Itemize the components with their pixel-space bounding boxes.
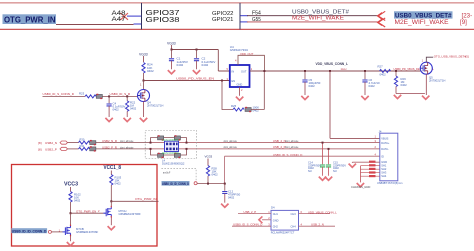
attribute text row1 mid [224, 140, 238, 143]
pin number A47 [112, 17, 127, 23]
junction EN/R25 [221, 80, 223, 82]
alt resistor bottom B [174, 153, 180, 158]
capacitor C4 [107, 96, 126, 117]
wire row1 to connector [272, 142, 380, 144]
wire through choke row1 [151, 142, 273, 144]
pin number D4-4 [301, 222, 303, 226]
svg-text:2N7002LT1H: 2N7002LT1H [147, 104, 163, 108]
svg-text:0402: 0402 [212, 173, 219, 177]
svg-text:90ohm/100MHz: 90ohm/100MHz [162, 139, 180, 142]
svg-text:DATA+: DATA+ [381, 141, 390, 145]
svg-text:OTG_PWR_EN: OTG_PWR_EN [76, 209, 96, 213]
svg-text:dont_altroute: dont_altroute [120, 147, 134, 150]
svg-text:USB2_P_R: USB2_P_R [102, 145, 117, 149]
pin name GPIO38 [146, 17, 180, 24]
junction R102 node [70, 212, 72, 214]
pin number 3 [227, 77, 229, 81]
sheet reference [23] [462, 13, 473, 20]
wire D4 pin6 [299, 213, 331, 215]
svg-text:DATA-: DATA- [381, 147, 389, 151]
junction C6 [364, 70, 366, 72]
pin name SH3 [381, 171, 387, 175]
svg-text:OTG_PWR_IN: OTG_PWR_IN [4, 16, 56, 25]
attribute text row2 mid [224, 146, 238, 149]
svg-text:NU: NU [308, 169, 312, 173]
svg-text:0402: 0402 [309, 84, 316, 88]
svg-text:J4: J4 [379, 130, 382, 134]
junction choke right row2 [186, 148, 188, 150]
svg-text:R27: R27 [378, 65, 384, 69]
pin number Q4 drain [140, 84, 142, 87]
shield pin stubs [361, 166, 380, 177]
wire Q4 source to ground [140, 102, 147, 122]
svg-text:0402: 0402 [147, 69, 154, 73]
common mode filter L4 [165, 141, 179, 151]
ground M7CB [67, 242, 74, 246]
alt resistor bottom A [158, 153, 164, 158]
wire USB2_N row [68, 142, 151, 144]
off-page circle [194, 182, 197, 185]
pin number Q5 drain [422, 60, 424, 63]
wire OTG_PWR_IN out [111, 200, 158, 202]
net label USB_2_P pin1 [244, 210, 257, 214]
ground C6 [361, 96, 368, 100]
svg-text:VBUS: VBUS [381, 137, 388, 141]
svg-text:VG33: VG33 [167, 41, 176, 45]
svg-text:OTG_PWR_IN: OTG_PWR_IN [135, 197, 157, 201]
wire M2E_WIFI_WAKE [241, 21, 379, 23]
svg-text:VCC1_8: VCC1_8 [104, 165, 122, 171]
net label USB0_VBUS_DET# (highlighted) [394, 11, 453, 19]
svg-text:USB_2_N: USB_2_N [311, 222, 324, 226]
wire label to M7CB gate [51, 231, 62, 233]
svg-text:USB0_ID_S_CONN_D: USB0_ID_S_CONN_D [43, 92, 75, 96]
wire U4 top pin loop [238, 55, 264, 71]
sheet ref [8] USB2_P [38, 148, 57, 152]
ground GND pin [349, 164, 356, 168]
net label USB_2_N pin4 [311, 222, 324, 226]
svg-text:USB0_PD_VBUS_EN: USB0_PD_VBUS_EN [176, 77, 214, 81]
wire VBUS vertical drop [329, 71, 331, 138]
net label USB0_PD_VBUS_EN [176, 77, 214, 81]
choke refdes L4 [162, 158, 185, 165]
svg-text:0402: 0402 [74, 199, 81, 203]
wire Q5 drain [426, 57, 433, 62]
capacitor C1 [169, 50, 188, 70]
block border top edge [0, 2, 474, 4]
svg-text:G5M8E6133T06F: G5M8E6133T06F [76, 230, 99, 234]
wire OTG_PWR_IN to pin A47 [56, 24, 134, 26]
alt resistor top B [174, 135, 180, 140]
net label OTG_PWR_IN (red) [135, 197, 157, 201]
svg-text:GPIO37: GPIO37 [146, 10, 180, 17]
pin number A48 [112, 11, 127, 17]
svg-text:USB0_ID_ID_CONN_D: USB0_ID_ID_CONN_D [12, 229, 47, 233]
pin number D4-3 [268, 222, 270, 226]
svg-text:USB0_ID_ID_CONN_D: USB0_ID_ID_CONN_D [162, 182, 189, 186]
svg-text:0402: 0402 [202, 63, 209, 67]
svg-text:0402: 0402 [401, 83, 408, 87]
junction VBUS drop [329, 70, 331, 72]
svg-text:dont_altroute: dont_altroute [224, 146, 238, 149]
wire U4 GND pin [236, 87, 243, 100]
net name M2E_WIFI_WAKE [292, 16, 344, 22]
wire EN net [144, 80, 230, 82]
pin number 1 [251, 67, 253, 71]
sheet reference [9] [460, 19, 467, 26]
pin name GPIO37 [146, 10, 180, 17]
pin name GPIO22 [212, 11, 234, 17]
svg-text:1A-H: 1A-H [341, 67, 347, 71]
attribute text row2 [120, 147, 134, 150]
power VCC1_8 [104, 165, 122, 175]
ground M7CH [108, 226, 115, 230]
pin number 4 [375, 152, 377, 156]
resistor R25 [231, 104, 244, 111]
junction OUT [263, 70, 265, 72]
svg-text:GND: GND [273, 219, 279, 223]
wire USB_ID row [43, 95, 138, 97]
no-connect X on pin A48 [121, 13, 129, 20]
off-page circle M7CB gate [48, 230, 51, 233]
section box (red) [12, 165, 158, 247]
svg-text:2N7002LT1H: 2N7002LT1H [429, 79, 445, 83]
pin name DATA+ [381, 141, 390, 145]
ground C5 [301, 96, 308, 100]
svg-text:0402: 0402 [380, 73, 387, 77]
choke note top (green) [162, 139, 180, 142]
pin number 2 [241, 88, 243, 92]
label C14 [308, 161, 321, 173]
svg-text:GPIO38: GPIO38 [146, 17, 180, 24]
svg-text:0402: 0402 [228, 196, 235, 200]
power VCC3 [64, 182, 78, 192]
part name J4 [377, 181, 402, 185]
ground C4 [105, 118, 112, 122]
pin number M7CH gate [98, 209, 100, 213]
wire M7CH drain [110, 201, 112, 206]
svg-text:VG33: VG33 [139, 52, 148, 56]
off-page connector USB2_N [60, 141, 68, 144]
net label M2E_WIFI_WAKE right [395, 19, 449, 26]
svg-text:D4: D4 [271, 205, 275, 209]
junction C12 [224, 183, 226, 185]
wire USB2_P row [68, 148, 151, 150]
block right edge [239, 3, 241, 30]
svg-text:SH2: SH2 [381, 167, 387, 171]
capacitor C15 (green) [326, 149, 331, 176]
capacitor C6 [362, 71, 380, 95]
attribute text row1 [120, 140, 134, 143]
power tap R28 [205, 154, 213, 165]
svg-text:0402: 0402 [115, 182, 122, 186]
transistor Q5 [420, 62, 445, 82]
pin number M7CB gate [59, 228, 61, 232]
dashed association line [161, 168, 196, 180]
junction choke left row2 [150, 148, 152, 150]
svg-text:GND: GND [237, 83, 243, 87]
pin number D4-1 [268, 210, 270, 214]
pin number 5 [227, 67, 229, 71]
svg-text:0402: 0402 [113, 107, 120, 111]
transistor M7CH [103, 206, 141, 218]
svg-text:0402: 0402 [369, 84, 376, 88]
svg-text:[8]: [8] [38, 141, 42, 145]
resistor R28 [206, 166, 218, 184]
capacitor C14 (green) [320, 143, 325, 176]
wire D4 pin4 [299, 225, 336, 227]
wire USB0_VBUS_DET# [241, 15, 379, 17]
pin number 3 [375, 139, 377, 143]
note text [163, 172, 171, 175]
power VG33 (caps rail) [167, 41, 176, 49]
pin name VBUS [381, 137, 388, 141]
net label USB0_ID_S_CONN_D pin3 [233, 222, 262, 226]
current marker [341, 67, 347, 71]
wire VBUS to connector [330, 137, 380, 139]
svg-text:SH1: SH1 [381, 164, 387, 168]
refdes U4 [230, 45, 248, 52]
resistor R24 [142, 63, 154, 81]
svg-text:USB2_N: USB2_N [45, 141, 57, 145]
part name D4 [271, 231, 295, 235]
svg-text:GND: GND [381, 160, 387, 164]
svg-text:NU: NU [333, 169, 337, 173]
pin number pads SH [369, 161, 376, 178]
junction choke right row1 [186, 142, 188, 144]
svg-text:VG33: VG33 [205, 154, 213, 158]
net label VDD_VBUS_CONN_L pin6 [308, 210, 337, 214]
wire ID net [225, 156, 380, 183]
transistor M7CB [63, 225, 99, 237]
svg-text:CH2: CH2 [273, 225, 279, 229]
svg-text:dont_altroute: dont_altroute [120, 140, 134, 143]
wire EN to R25 [222, 81, 233, 110]
svg-text:[9]: [9] [460, 19, 467, 26]
net label USB0_ID_S_CONN_D mid [273, 153, 302, 157]
net label USB0_ID_S_R [110, 92, 131, 96]
wire D4 pin3 [232, 225, 271, 227]
pin number F54 [252, 10, 261, 16]
ground R22 [124, 118, 131, 122]
resistor R29 pulldown [394, 71, 407, 94]
ground Q5 [422, 96, 429, 100]
block left edge [141, 3, 143, 30]
ground C2 [193, 70, 200, 74]
value R25 [253, 106, 260, 113]
svg-text:dont_altroute: dont_altroute [224, 140, 238, 143]
net label USB0_ID_ID_CONN_D (highlighted) [162, 181, 190, 186]
resistor R30 [79, 138, 90, 145]
svg-text:R23: R23 [79, 92, 85, 96]
svg-text:OUT: OUT [241, 69, 247, 73]
resistor R103 [110, 175, 122, 202]
svg-text:USB2_N_R: USB2_N_R [102, 139, 117, 143]
resistor R102 [69, 192, 81, 214]
junction Q4 drain node [143, 80, 145, 82]
attribute text USB_2_N [285, 140, 299, 143]
power VG33 (pull-up R24) [139, 52, 148, 62]
svg-text:RCLAMP0524P.TCT: RCLAMP0524P.TCT [271, 231, 295, 235]
svg-text:M2E_WIFI_WAKE: M2E_WIFI_WAKE [292, 16, 344, 22]
svg-text:GPIO21: GPIO21 [212, 17, 234, 23]
junction C2 [196, 49, 198, 51]
wire ground rail Q5 [396, 93, 425, 95]
capacitor C2 [194, 50, 215, 70]
wire R102 to M7CH gate [71, 212, 104, 214]
label C15 [333, 161, 346, 173]
wire VG33 rail [172, 50, 230, 72]
pin number 4 [235, 59, 237, 63]
svg-text:VDD_VBUS_CONN_L: VDD_VBUS_CONN_L [316, 62, 349, 66]
label CHASSIS_GND [351, 185, 370, 189]
svg-text:0402: 0402 [130, 107, 137, 111]
svg-text:CH3: CH3 [291, 212, 297, 216]
refdes J4 [379, 130, 382, 134]
junction C14 [322, 142, 324, 144]
net label OTG_USB_VBUS_DET# [434, 55, 469, 59]
svg-text:IN: IN [232, 69, 235, 73]
svg-text:USB0_ID_S_CONN_D: USB0_ID_S_CONN_D [233, 222, 262, 226]
alt pads R30 [90, 140, 96, 145]
wire ID bottom [197, 183, 225, 185]
sheet ref [8] USB2_N [38, 141, 57, 145]
svg-text:EN: EN [232, 79, 236, 83]
pin number D4-5 [268, 216, 270, 220]
wire shield collector [360, 166, 362, 183]
svg-text:SH4: SH4 [381, 174, 387, 178]
net label USB0_ID_ID_CONN_D left (highlighted) [11, 228, 47, 233]
ground R29 [394, 95, 401, 99]
op-amp U4 load switch box [230, 65, 250, 87]
block border bottom edge [0, 28, 474, 30]
alt resistor top A [158, 135, 164, 140]
net label USB_2_N mid [273, 139, 286, 143]
pin number G55 [252, 17, 261, 23]
pin name ID [381, 154, 384, 158]
alt pads R23 [96, 94, 102, 99]
svg-text:R25: R25 [231, 104, 237, 108]
net label USB2_N_R [102, 139, 117, 143]
pin name SH1 [381, 164, 387, 168]
svg-text:G5M8E6133T06F: G5M8E6133T06F [119, 212, 142, 216]
pin name GPIO21 [212, 17, 234, 23]
diode array D4 RCLAMP [271, 210, 299, 230]
svg-text:am0uF: am0uF [163, 172, 171, 175]
capacitor C5 [302, 71, 320, 95]
junction choke left row1 [150, 142, 152, 144]
ground C1 [168, 70, 175, 74]
common-mode choke bypass loop bottom [151, 149, 187, 155]
svg-text:0402: 0402 [177, 63, 184, 67]
svg-text:CH1: CH1 [273, 212, 279, 216]
dashed group box [145, 131, 197, 159]
svg-text:CH4: CH4 [291, 225, 297, 229]
transistor Q4 [138, 90, 164, 108]
pin number 2 [375, 145, 377, 149]
junction C4 [108, 95, 110, 97]
wire row2 to connector [272, 148, 380, 150]
svg-text:DLW21SN900SQ2: DLW21SN900SQ2 [162, 161, 185, 165]
wire to M7CB drain [70, 213, 72, 225]
svg-text:90ohm/100MHz: 90ohm/100MHz [162, 152, 180, 155]
resistor R27 series [378, 65, 391, 77]
svg-text:USB2_P: USB2_P [45, 148, 57, 152]
svg-text:SH3: SH3 [381, 171, 387, 175]
alt pads R25 [245, 107, 251, 112]
common-mode choke bypass loop top [151, 138, 187, 143]
wire D4 pin1 [238, 213, 271, 215]
svg-text:M2E_WIFI_WAKE: M2E_WIFI_WAKE [395, 19, 449, 26]
junction C5 [304, 70, 306, 72]
svg-text:VCC3: VCC3 [64, 182, 78, 188]
svg-text:USB3B'TJST/O(5)mm: USB3B'TJST/O(5)mm [377, 181, 402, 185]
net label OTG_PWR_EN [76, 209, 96, 213]
net label USB0_PD_VBUS_DET_CONN_L [394, 67, 435, 71]
wire GND pin [352, 161, 380, 164]
wire Q5 source [425, 74, 427, 95]
svg-text:OTG_USB_VBUS_DET#: OTG_USB_VBUS_DET# [434, 55, 467, 59]
alt pads R31 [90, 146, 96, 151]
pin number 1 [375, 135, 377, 139]
ground D4 GND pin (left arrow) [259, 216, 271, 223]
ground C15 [325, 177, 332, 181]
svg-text:CHASSIS_GND: CHASSIS_GND [351, 185, 370, 189]
net name USB0_VBUS_DET# [292, 9, 350, 15]
pin name SH2 [381, 167, 387, 171]
off-page connector chevrons [377, 11, 385, 27]
choke note bottom (green) [162, 152, 180, 155]
pin name DATA- [381, 147, 389, 151]
net name VDD_VBUS_CONN_L [316, 62, 349, 66]
pin name GND [381, 160, 387, 164]
resistor R31 [79, 144, 90, 150]
junction R22 [126, 95, 128, 97]
pin number D4-6 [301, 210, 303, 214]
resistor R23 [79, 92, 96, 98]
wire R25 to OUT [251, 71, 264, 110]
resistor R22 [126, 96, 137, 117]
pin stub A48 [127, 15, 142, 17]
connector J4 box [380, 133, 398, 181]
svg-text:[8]: [8] [38, 148, 42, 152]
chassis ground [357, 183, 364, 187]
svg-text:[5]: [5] [466, 55, 469, 59]
wire M7CH source [110, 218, 112, 226]
junction OTG_PWR_IN node [110, 200, 112, 202]
junction R29 [395, 70, 397, 72]
svg-text:A47: A47 [112, 17, 127, 23]
net label USB0_ID_S_CONN_D [43, 92, 75, 96]
off-page connector USB2_P [60, 147, 68, 150]
net label OTG_PWR_IN (highlighted) [3, 14, 57, 24]
wire Q4 drain [143, 81, 145, 90]
junction C15 [328, 148, 330, 150]
net label USB2_P_R [102, 145, 117, 149]
svg-text:USB0_VBUS_DET#: USB0_VBUS_DET# [292, 9, 350, 15]
ground C14 [319, 177, 326, 181]
pin name SH4 [381, 174, 387, 178]
junction R28 bottom [207, 183, 209, 185]
ground C12 [221, 204, 228, 208]
net label USB_2_P mid [273, 145, 286, 149]
wire through choke row2 [151, 148, 273, 150]
attribute text USB_2_P [285, 146, 299, 149]
svg-text:VDD_VBUS_CONN_L: VDD_VBUS_CONN_L [308, 210, 337, 214]
svg-text:ID: ID [381, 154, 384, 158]
refdes D4 [271, 205, 275, 209]
capacitor C12 [222, 184, 240, 203]
